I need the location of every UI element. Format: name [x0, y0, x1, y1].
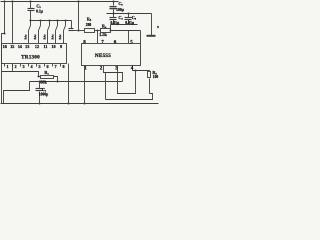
svg-text:5: 5 [38, 64, 40, 69]
wire NE555 pin1 drop [84, 66, 86, 104]
label TR1300 bottom pins [6, 64, 64, 69]
resistor R3 [85, 29, 95, 33]
svg-text:7: 7 [54, 64, 56, 69]
svg-text:100μ: 100μ [116, 8, 125, 12]
svg-text:13: 13 [25, 44, 29, 49]
wire vcc drop to R row [78, 1, 80, 31]
wire R row left [79, 30, 85, 32]
svg-text:5: 5 [157, 25, 159, 29]
resistor R4 [101, 29, 111, 33]
svg-text:1000p: 1000p [39, 92, 48, 96]
wire left vertical from rail to jog [2, 1, 5, 104]
wire cap stub [110, 25, 112, 31]
wire pin2 to R2 [2, 64, 41, 77]
capacitor C2 [30, 1, 32, 9]
wire R3 to R4 [95, 30, 101, 32]
svg-text:10: 10 [51, 44, 55, 49]
capacitor C1 [39, 82, 41, 89]
wire NE555 pin2 route [104, 66, 123, 82]
wire low horizontal to R6 bottom [106, 94, 153, 100]
IC U1 TR1300 box [2, 44, 67, 64]
wire corner to box right [140, 31, 142, 44]
wire pin15 vertical [12, 1, 14, 44]
capacitor C3 [71, 21, 73, 29]
svg-text:2: 2 [14, 64, 16, 69]
label NE555 bottom pins [84, 67, 134, 72]
capacitor C4 [113, 14, 115, 18]
wire bottom rail [1, 103, 159, 105]
svg-text:9: 9 [60, 44, 62, 49]
switch SA1 [29, 19, 32, 43]
wire pin6 drop [128, 31, 130, 44]
wire pin7 drop [97, 31, 99, 44]
svg-text:6: 6 [46, 64, 48, 69]
svg-text:100: 100 [153, 75, 159, 79]
svg-text:8: 8 [62, 64, 64, 69]
wire Vcc top rail [1, 1, 119, 3]
svg-text:NE555: NE555 [95, 53, 111, 59]
wire switch rail [30, 20, 72, 22]
wire branch drop to low rail [105, 73, 107, 100]
svg-text:68k: 68k [40, 80, 47, 85]
node R2 left junction dot [37, 75, 39, 77]
IC U2 NE555 box [82, 44, 141, 66]
switch SA3 [48, 19, 51, 43]
resistor R6 [149, 71, 151, 72]
wire pin8 long drop [68, 64, 70, 104]
label TR1300 top pins [3, 44, 62, 49]
svg-text:15: 15 [10, 44, 14, 49]
wire NE555 pin3 route [118, 66, 136, 94]
svg-text:16: 16 [3, 44, 7, 49]
node C junction dot at rail x12.5 [11, 0, 13, 2]
node D junction dot [77, 29, 79, 31]
capacitor C6 [128, 14, 130, 18]
svg-text:0.1μ: 0.1μ [36, 10, 44, 14]
svg-text:280: 280 [86, 23, 92, 27]
wire R4 right [111, 30, 141, 32]
svg-text:11: 11 [44, 44, 48, 49]
capacitor C5 electrolytic [113, 1, 115, 6]
wire R2 right drop [54, 77, 58, 82]
wire ground mid rail [107, 13, 152, 15]
node E junction dot pin7 [96, 29, 98, 31]
switch SA5 [64, 19, 67, 43]
svg-text:0.01μ: 0.01μ [110, 21, 120, 25]
switch SA2 [39, 19, 42, 43]
svg-text:0.01μ: 0.01μ [125, 21, 135, 25]
svg-text:1.5k: 1.5k [99, 32, 107, 37]
switch SA4 [56, 19, 59, 43]
ground [147, 35, 156, 37]
svg-text:12: 12 [35, 44, 39, 49]
wire TR1300 bottom pin stubs [5, 64, 61, 67]
wire NE555 pin4 route [133, 66, 150, 71]
node A junction dot at rail x4.5 [3, 0, 5, 2]
label NE555 top pins [83, 40, 133, 45]
node F junction dot [109, 29, 111, 31]
wire long H1 under ICs [30, 81, 123, 83]
wire H1 left staircase [4, 82, 30, 104]
wire ground drop [151, 14, 153, 36]
wire cap bottom rail [111, 24, 138, 26]
svg-text:3: 3 [22, 64, 24, 69]
resistor R2 [41, 76, 54, 79]
svg-text:1: 1 [6, 64, 8, 69]
node B junction dot at jog [3, 32, 5, 34]
svg-text:TR1300: TR1300 [21, 54, 40, 60]
